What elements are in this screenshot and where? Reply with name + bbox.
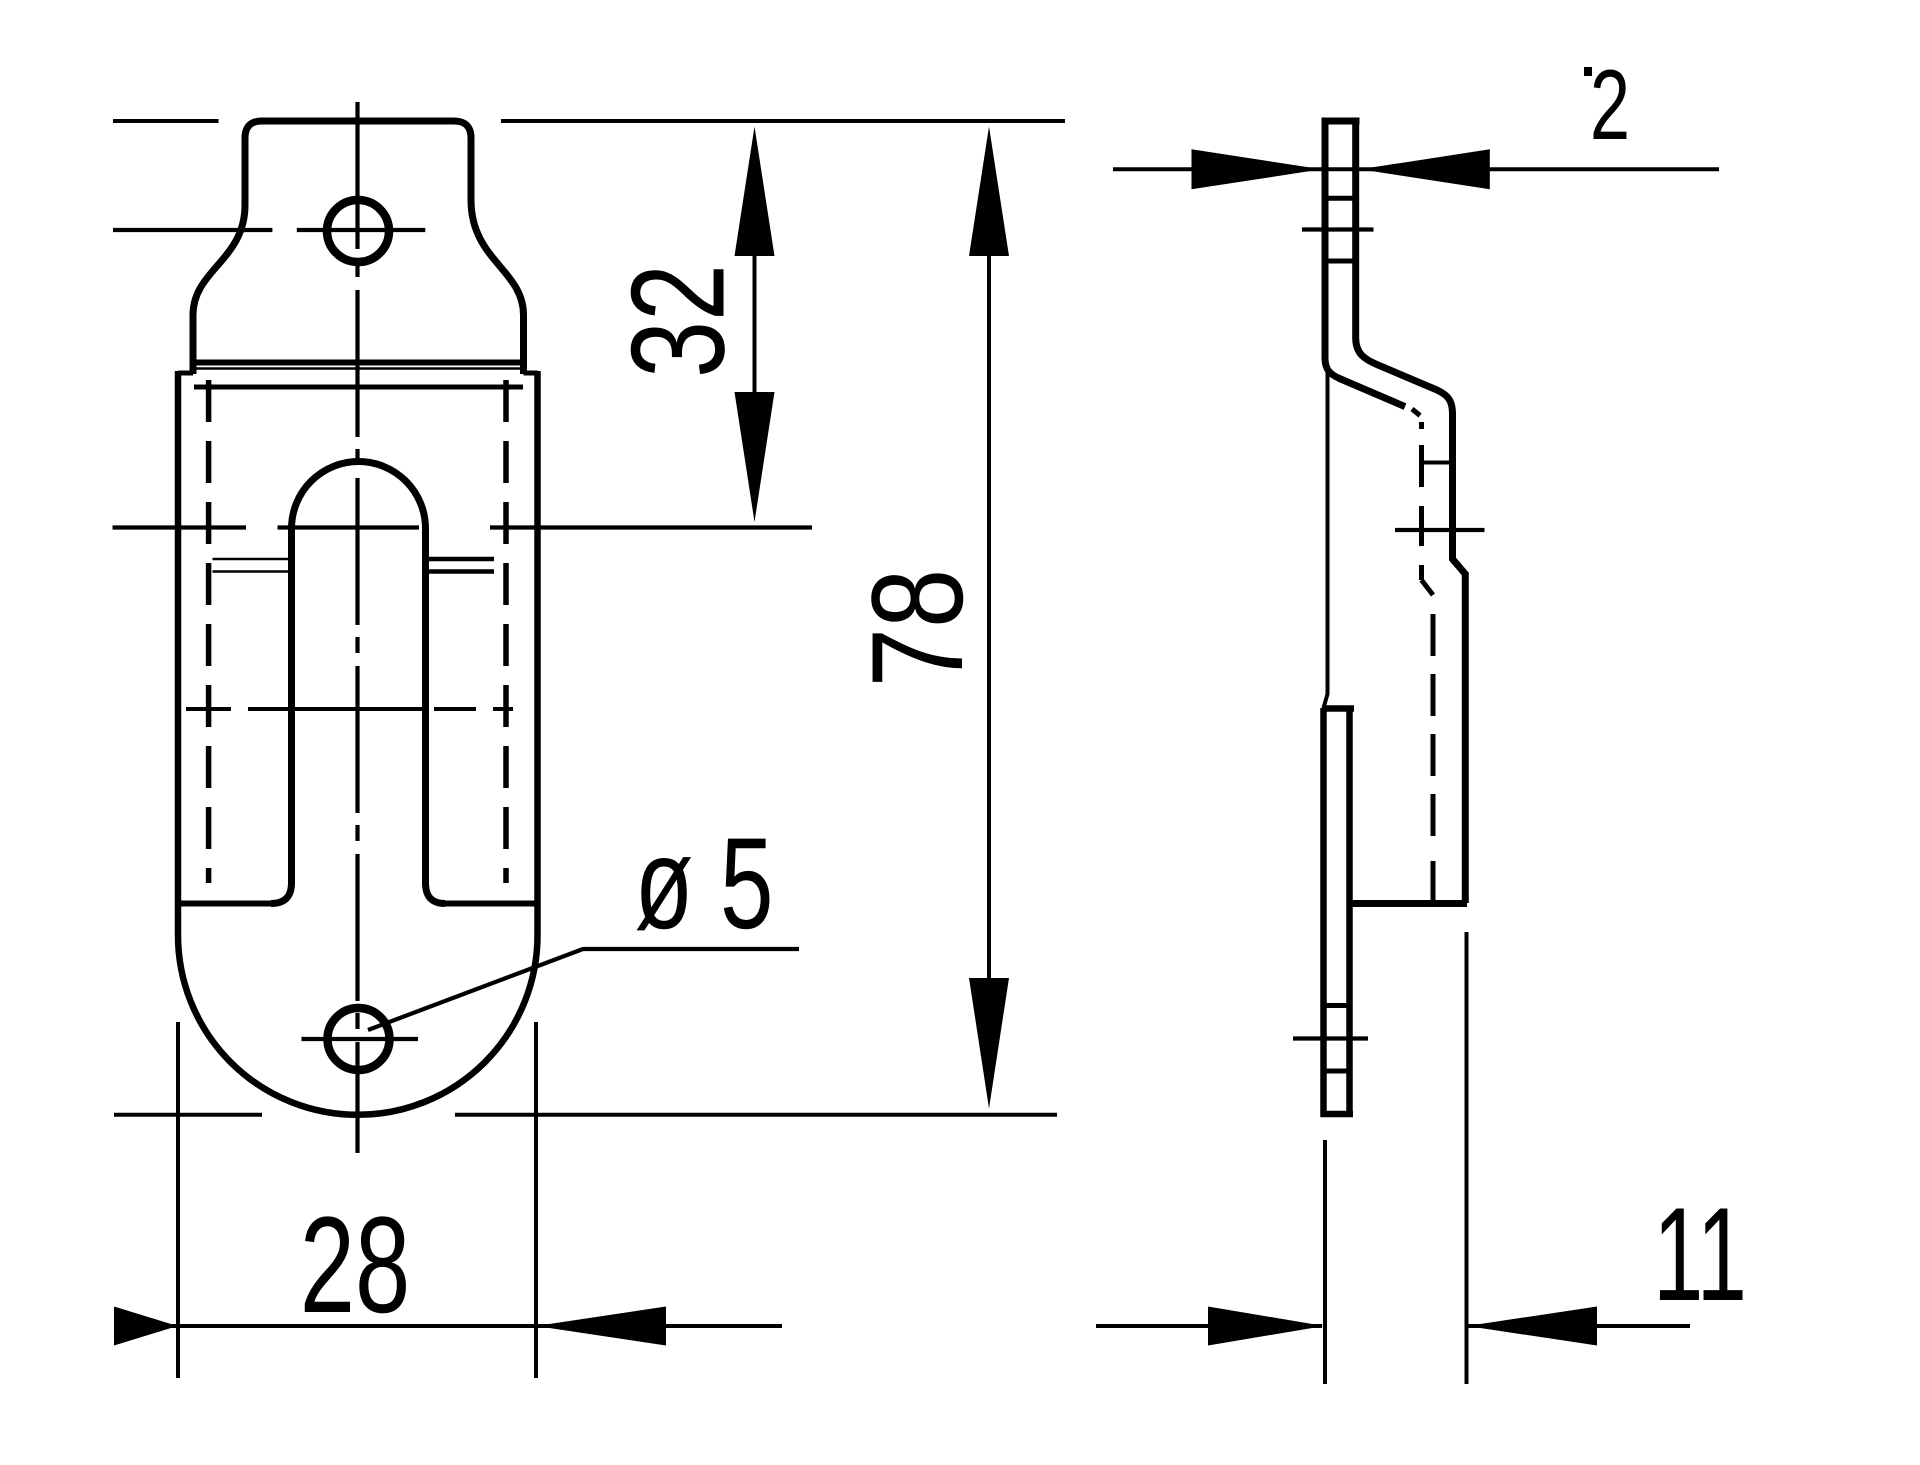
svg-text:ø 5: ø 5 xyxy=(635,811,774,957)
svg-text:78: 78 xyxy=(845,569,990,688)
svg-text:32: 32 xyxy=(605,264,753,378)
svg-text:2: 2 xyxy=(1590,51,1630,161)
svg-text:28: 28 xyxy=(300,1189,410,1341)
svg-text:11: 11 xyxy=(1653,1181,1747,1330)
